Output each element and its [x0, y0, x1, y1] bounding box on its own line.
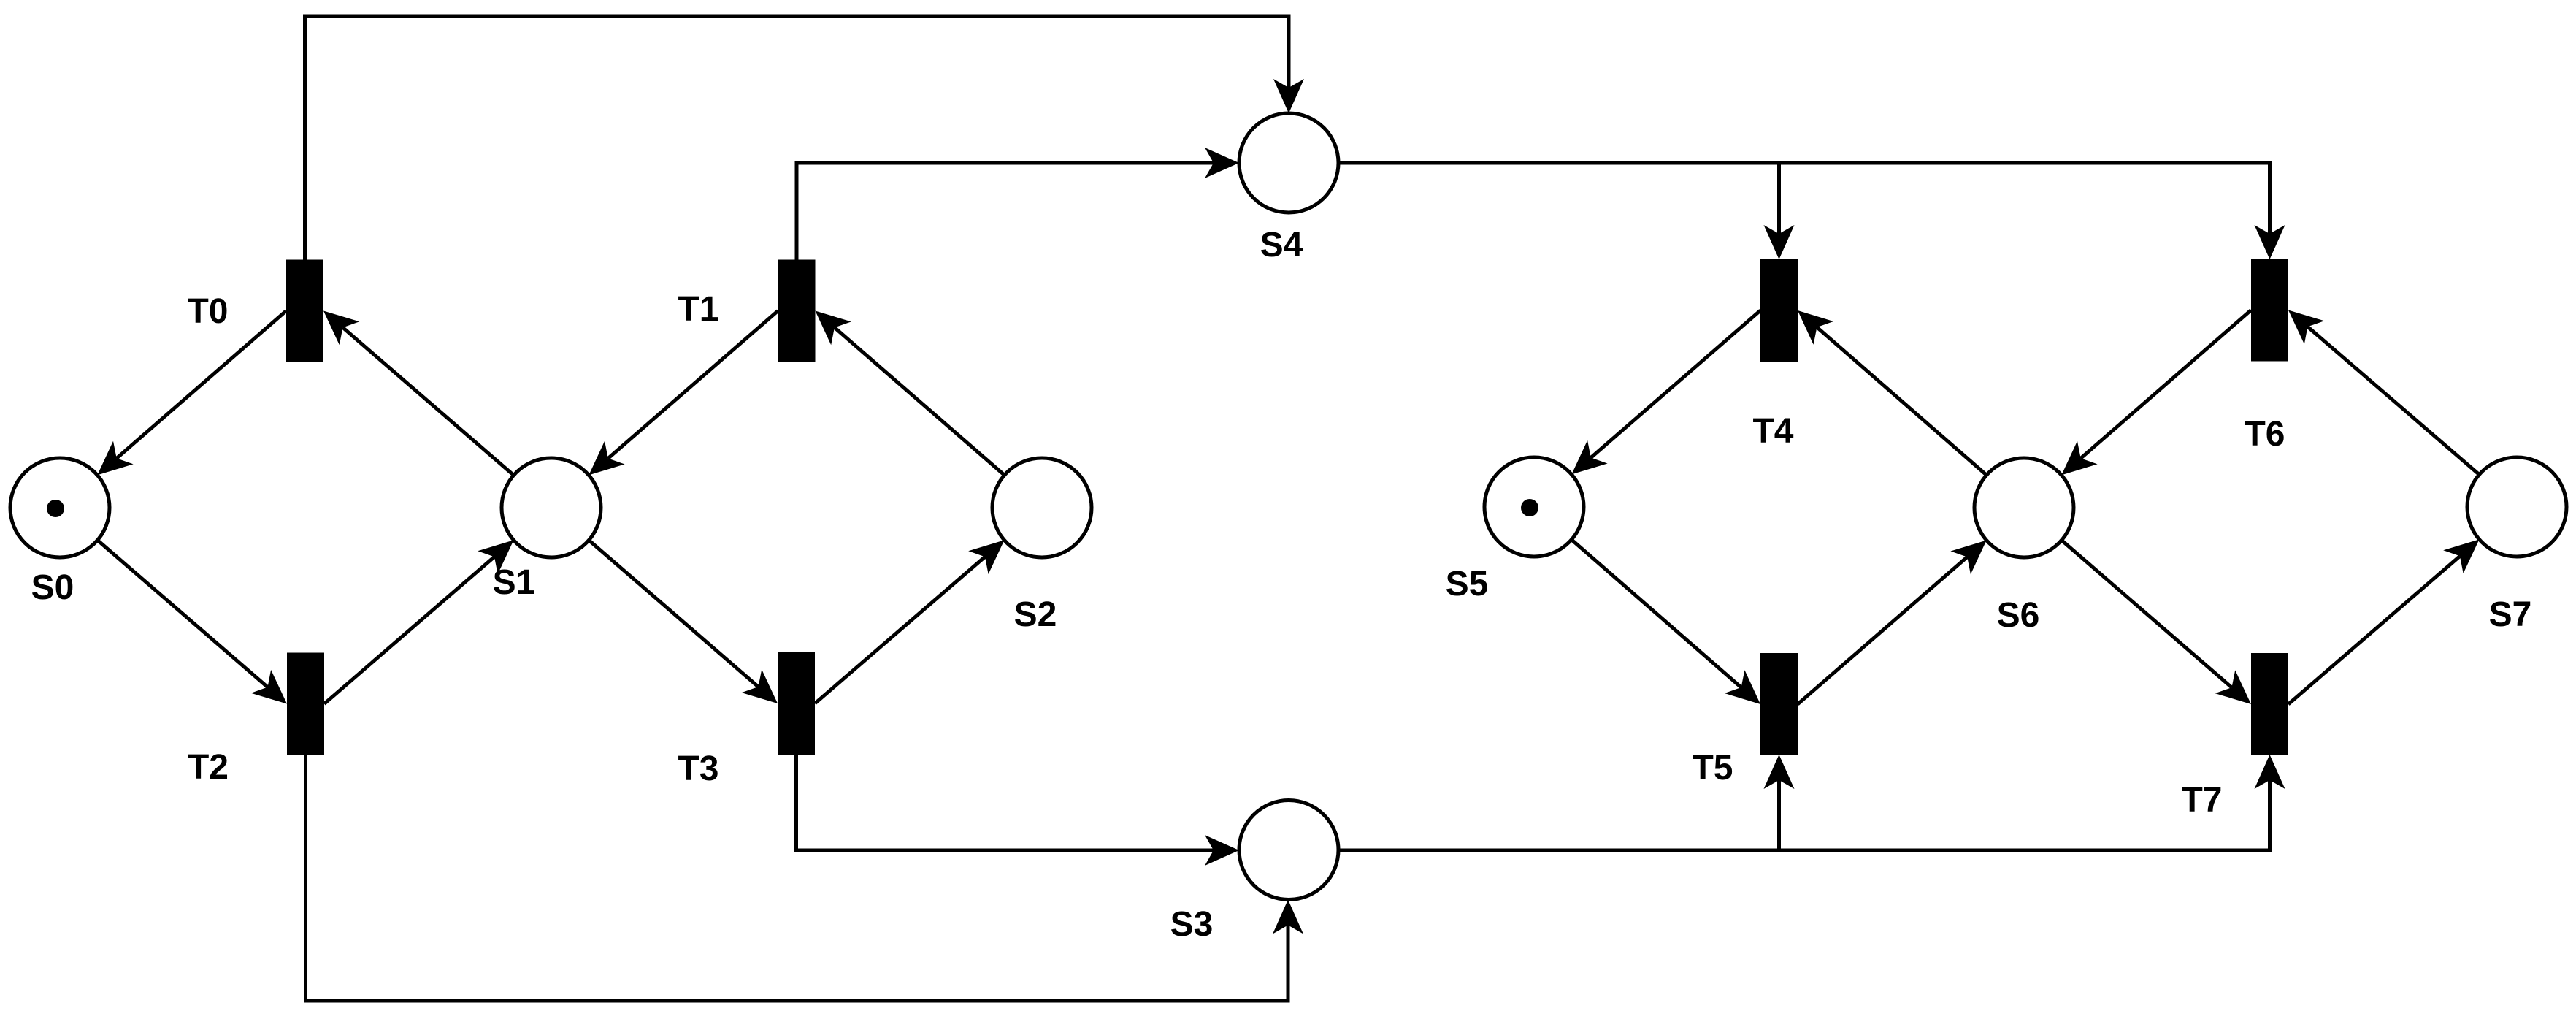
arc T0->S4	[305, 16, 1305, 310]
place S7	[2467, 457, 2567, 557]
place S2	[992, 458, 1092, 557]
svg-text:S4: S4	[1260, 226, 1303, 264]
svg-text:S3: S3	[1170, 905, 1214, 944]
svg-text:T1: T1	[678, 290, 718, 329]
arc T5->S6	[1798, 541, 1987, 704]
arc T0->S0	[97, 311, 286, 476]
arc S4->T6	[1779, 163, 2285, 259]
arc S7->T6	[2288, 310, 2517, 508]
transition T7	[2251, 653, 2288, 755]
svg-text:T6: T6	[2244, 415, 2285, 454]
arc S1->T3	[551, 508, 778, 703]
arc S0->T2	[60, 508, 287, 704]
arc T2->S3	[306, 703, 1304, 1001]
place S3	[1239, 801, 1338, 900]
svg-text:S0: S0	[31, 568, 74, 607]
transition T0	[286, 260, 323, 362]
place S6	[1974, 458, 2074, 557]
arc T3->S3	[797, 703, 1240, 866]
svg-text:T4: T4	[1752, 412, 1793, 451]
arc S1->T0	[323, 311, 551, 508]
transition T4	[1760, 259, 1798, 362]
svg-text:T3: T3	[678, 749, 718, 788]
svg-text:S5: S5	[1446, 565, 1489, 603]
arc T4->S5	[1571, 310, 1760, 474]
svg-text:S6: S6	[1997, 596, 2040, 635]
transition T2	[287, 653, 324, 755]
place S5	[1484, 457, 1584, 557]
transition T6	[2251, 259, 2288, 362]
place S4	[1239, 113, 1338, 213]
arc T3->S2	[815, 540, 1005, 703]
arc S6->T7	[2024, 508, 2251, 704]
svg-text:T0: T0	[187, 292, 228, 331]
token in S0	[47, 500, 64, 517]
arc T7->S7	[2288, 539, 2480, 704]
arc S2->T1	[816, 311, 1043, 508]
svg-text:T7: T7	[2181, 781, 2222, 820]
transition T5	[1760, 653, 1798, 755]
arc T1->S1	[589, 311, 778, 476]
place S1	[502, 458, 601, 557]
svg-text:T5: T5	[1692, 749, 1733, 787]
svg-text:S7: S7	[2489, 595, 2532, 634]
arc S6->T4	[1798, 310, 2024, 508]
transition T1	[778, 260, 816, 362]
arc T2->S1	[324, 540, 514, 703]
arc S5->T5	[1534, 507, 1760, 704]
arc S4->T4	[1338, 163, 1795, 259]
token in S5	[1521, 499, 1538, 516]
arc T1->S4	[797, 148, 1239, 310]
svg-text:T2: T2	[188, 748, 229, 787]
svg-text:S1: S1	[493, 563, 536, 602]
arc S3->T5	[1338, 755, 1795, 850]
arc T6->S6	[2061, 310, 2251, 476]
arc S3->T7	[1779, 755, 2285, 850]
place S0	[10, 458, 110, 557]
transition T3	[778, 652, 815, 755]
svg-text:S2: S2	[1014, 595, 1057, 634]
